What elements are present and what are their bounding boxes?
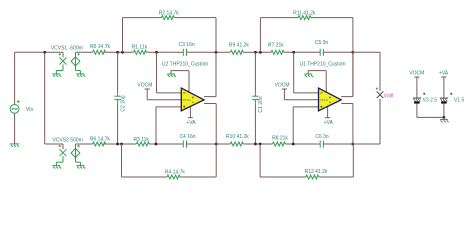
svg-text:V1 5: V1 5 (454, 97, 465, 103)
voltage source V3 2.5 battery (413, 98, 421, 102)
wire VCVS2 diamond top stub (75, 144, 77, 148)
wire node Bp up to U2 non-inverting input (156, 107, 181, 144)
wire node B2p up to U1 non-inverting input (293, 107, 318, 144)
wire U1 bottom pin to +VA (327, 107, 329, 118)
svg-text:V3 2.5: V3 2.5 (423, 97, 438, 103)
wire U1 output top (341, 96, 353, 98)
label C6 3n (315, 134, 329, 140)
label R3 11k (133, 137, 149, 143)
wire top rail R9 to R7 (243, 51, 271, 53)
ground VCVS1 output (76, 74, 85, 77)
label C3 16n (179, 42, 195, 48)
ground below VIn (10, 144, 19, 147)
node R12 loop left (259, 143, 262, 146)
wire U2 top pin elbow from ground (171, 71, 189, 92)
svg-text:VCVS2 500m: VCVS2 500m (52, 137, 82, 143)
svg-text:R11 41.2k: R11 41.2k (293, 10, 316, 16)
VCVS2 dependent source diamond (71, 148, 80, 157)
wire R11 loop top right (311, 17, 353, 19)
svg-text:THP210: THP210 (319, 99, 328, 102)
node top rail junction to VCVS2 feed (43, 51, 46, 54)
label +VA U2 (186, 120, 196, 126)
label VOCM supply (409, 71, 424, 77)
label C5 3n (315, 40, 329, 46)
svg-text:R6 14.7k: R6 14.7k (90, 136, 111, 142)
resistor R6 (93, 142, 106, 146)
wire VOCM U1 to op-amp (284, 89, 318, 100)
wire R4 loop bottom left (122, 176, 168, 178)
wire top rail VIn to VCVS1 input (15, 51, 63, 53)
label R8 21k (272, 136, 288, 142)
VCVS1 input polarity plus (59, 53, 61, 55)
voltage source VIn wire to top rail (14, 52, 16, 104)
wire bottom rail R3 to C4 (149, 143, 183, 145)
ground VCVS1 input (52, 74, 61, 77)
label R1 11k (132, 44, 148, 50)
wire supply ground join (417, 116, 444, 118)
wire V1 to ground join (443, 104, 445, 118)
capacitor C1 (252, 96, 258, 99)
capacitor C3 (183, 49, 186, 56)
wire R12 loop bottom left (260, 176, 306, 178)
label V1 5 (454, 97, 465, 103)
VCVS2 input port X (60, 149, 67, 156)
node Bp non-inverting node (155, 143, 158, 146)
wire bottom rail C4 to R10 (187, 143, 231, 145)
voltage source VIn polarity plus (17, 100, 20, 103)
wire C1 top lead (254, 52, 256, 96)
node B2 stage2 inverting node (292, 51, 295, 54)
capacitor C4 (183, 140, 186, 147)
wire VCVS1 diamond top stub (75, 52, 77, 56)
label VIn (26, 107, 34, 113)
wire bottom rail extension to probe (353, 143, 380, 145)
wire junction to supply ground (443, 117, 445, 119)
ground VCVS2 output (76, 166, 85, 169)
VOCM U2 net post (145, 88, 150, 90)
wire U2 bottom pin to +VA (189, 107, 191, 118)
wire R11 loop left vertical (259, 18, 261, 53)
wire node B down to U2 inverting input (157, 52, 182, 93)
label R5 14.7k (90, 44, 111, 50)
+VA supply net post (441, 76, 446, 78)
wire VCVS1 input to ground hook (56, 65, 63, 74)
wire R2 loop right vertical to output (215, 18, 217, 97)
wire U1 top pin elbow from ground (308, 71, 326, 92)
battery V1 plus mark (450, 93, 452, 95)
svg-text:U1 THP210_Custom: U1 THP210_Custom (299, 62, 345, 68)
resistor R5 (93, 50, 106, 54)
wire R2 loop left vertical (122, 18, 124, 53)
wire R12 loop right vertical (352, 144, 354, 177)
resistor R9 (230, 50, 243, 54)
wire R12 loop left vertical (259, 144, 261, 177)
wire C2 bottom lead (117, 100, 119, 144)
resistor R10 (230, 142, 243, 146)
resistor R7 (271, 50, 284, 54)
svg-text:+VA: +VA (186, 120, 196, 126)
svg-text:C2 20p: C2 20p (120, 95, 126, 111)
node stage1 output bottom rail (215, 143, 218, 146)
wire C2 top lead (117, 52, 119, 96)
label R6 14.7k (90, 136, 111, 142)
node C1 top (254, 51, 257, 54)
svg-text:R10 41.2k: R10 41.2k (226, 134, 249, 140)
node R2 loop left (121, 51, 124, 54)
wire R4 loop bottom right (180, 176, 216, 178)
label C1 20n (258, 96, 264, 112)
wire V3 to ground join (416, 104, 418, 118)
svg-text:VOCM: VOCM (409, 71, 424, 77)
label U2 THP210_Custom (162, 62, 208, 68)
label +VA supply (439, 71, 449, 77)
label R7 21k (268, 42, 284, 48)
label U1 THP210_Custom (299, 62, 345, 68)
svg-text:VCVS1 -500m: VCVS1 -500m (51, 45, 83, 51)
resistor R12 (306, 175, 319, 179)
svg-text:Vdiff: Vdiff (384, 94, 395, 100)
op-amp U1 (319, 88, 342, 111)
svg-text:VIn: VIn (26, 107, 34, 113)
wire VCVS2 feed corner to input (45, 143, 63, 145)
svg-text:THP210: THP210 (182, 99, 191, 102)
wire bottom rail C6 to output vertical (323, 143, 353, 145)
capacitor C5 (320, 49, 323, 56)
VCVS2 output polarity plus (78, 145, 80, 147)
ground VCVS2 input (52, 166, 61, 169)
label R10 41.2k (226, 134, 249, 140)
svg-text:C6 3n: C6 3n (315, 134, 329, 140)
wire VCVS2 input to ground hook (56, 156, 63, 165)
node stage2 output top rail (352, 51, 355, 54)
probe plus mark (376, 88, 378, 90)
label Vdiff (384, 94, 395, 100)
node stage1 output top rail (215, 51, 218, 54)
label VOCM U2 (137, 83, 152, 89)
wire top rail R1 to C3 (147, 51, 184, 53)
capacitor C6 (320, 140, 323, 147)
capacitor C2 (114, 96, 120, 99)
svg-text:R5 14.7k: R5 14.7k (90, 44, 111, 50)
+VA U2 net post (188, 117, 193, 119)
VOCM supply net post (414, 76, 419, 78)
wire R11 loop right vertical to output (352, 18, 354, 97)
node C2 top (116, 51, 119, 54)
wire probe bottom vertical (379, 99, 381, 144)
VCVS1 dependent source diamond (71, 57, 80, 66)
svg-text:R1 11k: R1 11k (132, 44, 148, 50)
wire stage2 output bottom vertical (352, 104, 354, 145)
label R12 41.2k (305, 169, 328, 175)
wire U2 output top (204, 96, 216, 98)
wire VOCM U2 to op-amp (147, 89, 181, 100)
wire +VA post to V1 (443, 77, 445, 98)
wire VCVS2 diamond to ground hook (76, 158, 81, 166)
wire top rail C3 to R9 (187, 51, 231, 53)
wire probe top vertical (379, 52, 381, 91)
VCVS1 output polarity plus (78, 53, 80, 55)
wire U2 output bottom (204, 103, 216, 105)
wire R4 loop right vertical (215, 144, 217, 177)
svg-text:R7 21k: R7 21k (268, 42, 284, 48)
VCVS2 input polarity plus (59, 145, 61, 147)
svg-text:C3 16n: C3 16n (179, 42, 195, 48)
wire VCVS2 input pin drop (62, 144, 64, 149)
wire stage2 output top vertical (352, 52, 354, 96)
wire top rail R5 to R1 (105, 51, 134, 53)
label C4 16n (179, 134, 195, 140)
label VOCM U1 (275, 83, 290, 89)
wire bottom rail VCVS2 to R6 (76, 143, 93, 145)
battery V3 plus mark (423, 93, 425, 95)
VOCM U1 net post (282, 88, 287, 90)
label R11 41.2k (293, 10, 316, 16)
label R4 14.7k (165, 169, 186, 175)
svg-text:R12 41.2k: R12 41.2k (305, 169, 328, 175)
node B2p stage2 non-inverting node (292, 143, 295, 146)
ground above U2 (167, 74, 176, 77)
wire top rail extension to probe (353, 51, 380, 53)
wire stage1 output bottom vertical (215, 104, 217, 145)
wire top rail R7 to C5 (284, 51, 320, 53)
svg-text:C1 20n: C1 20n (258, 96, 264, 112)
resistor R3 (136, 142, 149, 146)
wire top rail VCVS1 to R5 (76, 51, 93, 53)
wire VCVS1 input pin drop (62, 52, 64, 57)
svg-text:+VA: +VA (324, 120, 334, 126)
resistor R2 (161, 16, 174, 20)
+VA U1 net post (325, 117, 330, 119)
svg-text:R8 21k: R8 21k (272, 136, 288, 142)
resistor R1 (134, 50, 147, 54)
ground supply (440, 120, 449, 123)
wire C1 bottom lead (254, 100, 256, 144)
wire U1 output bottom (341, 103, 353, 105)
label R2 14.7k (159, 10, 180, 16)
wire bottom rail R6 to R3 (105, 143, 137, 145)
wire R2 loop top right (175, 17, 217, 19)
node R11 loop left (259, 51, 262, 54)
wire node B2 down to U1 inverting input (294, 52, 319, 93)
svg-text:R2 14.7k: R2 14.7k (159, 10, 180, 16)
label V3 2.5 (423, 97, 438, 103)
ground above U1 (304, 74, 313, 77)
node C2 bottom (116, 143, 119, 146)
label R9 41.2k (229, 42, 250, 48)
node C1 bottom (254, 143, 257, 146)
wire R2 loop top left (123, 17, 162, 19)
svg-text:C4 16n: C4 16n (179, 134, 195, 140)
node R4 loop left (120, 143, 123, 146)
svg-text:C5 3n: C5 3n (315, 40, 329, 46)
resistor R11 (298, 16, 311, 20)
resistor R4 (167, 175, 180, 179)
voltage source V1 5 battery (440, 98, 448, 102)
wire bottom rail R8 to C6 (285, 143, 320, 145)
label +VA U1 (324, 120, 334, 126)
voltage probe Vdiff X (377, 91, 384, 98)
wire bottom rail R10 to R8 (243, 143, 272, 145)
wire top rail C5 to output vertical (323, 51, 353, 53)
label VCVS1 -500m (51, 45, 83, 51)
label VCVS2 500m (52, 137, 82, 143)
node B inverting input node (155, 51, 158, 54)
VCVS1 input port X (60, 58, 67, 65)
svg-text:VOCM: VOCM (137, 83, 152, 89)
wire VCVS1 diamond to ground hook (76, 66, 81, 74)
voltage source VIn (10, 105, 19, 114)
label C2 20p (120, 95, 126, 111)
op-amp U2 (181, 88, 204, 111)
wire VOCM post to V3 (416, 77, 418, 98)
svg-text:R9 41.2k: R9 41.2k (229, 42, 250, 48)
svg-text:+VA: +VA (439, 71, 449, 77)
node supply ground junction (443, 116, 446, 119)
node stage2 output bottom rail (352, 143, 355, 146)
svg-text:U2 THP210_Custom: U2 THP210_Custom (162, 62, 208, 68)
wire VCVS2 feed vertical (44, 52, 46, 144)
resistor R8 (272, 142, 285, 146)
svg-text:VOCM: VOCM (275, 83, 290, 89)
wire VIn to ground (14, 113, 16, 144)
wire R4 loop left vertical (121, 144, 123, 177)
wire R12 loop bottom right (319, 176, 353, 178)
wire R11 loop top left (260, 17, 298, 19)
